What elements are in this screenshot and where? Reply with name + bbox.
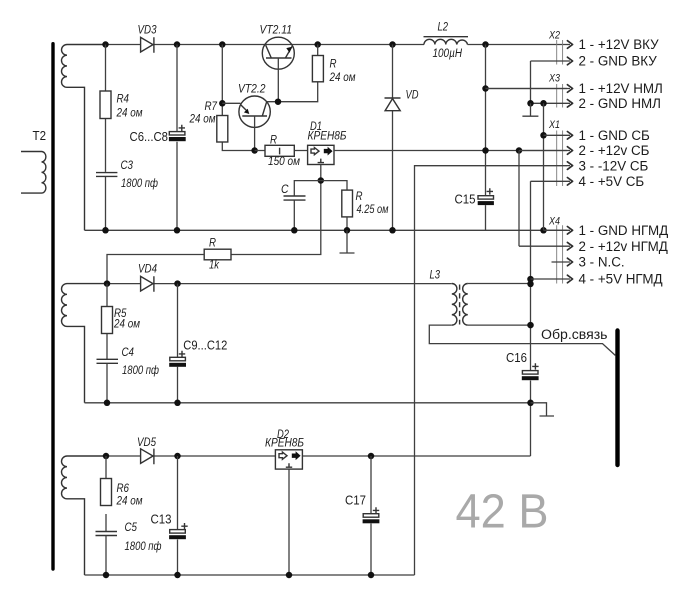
ground symbol below rail <box>340 230 355 253</box>
node junction C6...C8/gnd rail <box>174 227 181 234</box>
diode VD5 <box>137 437 157 464</box>
node junction VD/top rail <box>389 41 396 48</box>
svg-text:VD4: VD4 <box>138 264 157 276</box>
connector pin X1.1 (GND СБ) <box>544 134 571 136</box>
ground symbol at X3 <box>522 103 538 116</box>
svg-text:2 - GND НМЛ: 2 - GND НМЛ <box>579 96 661 111</box>
svg-text:C16: C16 <box>506 351 527 365</box>
svg-text:3 - N.C.: 3 - N.C. <box>579 255 625 270</box>
svg-text:R: R <box>356 191 363 203</box>
connector X1 bracket <box>557 131 563 187</box>
svg-text:C5: C5 <box>125 522 138 534</box>
connector pin X1.4 (+5V СБ) <box>531 180 571 182</box>
node junction R24/top rail <box>314 41 321 48</box>
wire X2 pin2 GND down-link <box>530 61 532 103</box>
svg-text:Обр.связь: Обр.связь <box>541 327 608 342</box>
wire GND vertical to X1/X4 <box>543 103 545 230</box>
node junction L3 top/+5V <box>527 281 534 288</box>
connector pin X1.2 (+12v СБ) <box>519 150 570 152</box>
resistor R 150 ом <box>255 135 308 169</box>
connector pin X4.3 (N.C.) <box>552 261 571 263</box>
svg-text:КРЕН8Б: КРЕН8Б <box>308 131 347 143</box>
svg-text:КРЕН8Б: КРЕН8Б <box>265 438 304 450</box>
connector X3 bracket <box>557 84 563 108</box>
wire feedback winding to bar <box>429 325 615 355</box>
svg-text:X2: X2 <box>548 30 560 42</box>
transformer T2 core <box>51 44 54 569</box>
svg-text:L3: L3 <box>430 270 441 282</box>
node junction R4/top rail <box>102 41 109 48</box>
+5V vertical with C16 <box>530 181 532 456</box>
svg-text:R: R <box>209 238 216 250</box>
connector pin X2.1 (+12V ВКУ) <box>567 44 570 46</box>
svg-text:C6...C8: C6...C8 <box>130 130 169 144</box>
svg-text:X4: X4 <box>548 216 560 228</box>
svg-text:100µH: 100µH <box>433 48 463 60</box>
svg-text:1 - GND СБ: 1 - GND СБ <box>579 128 650 143</box>
wire L3 right top to +5V node <box>468 283 531 285</box>
svg-text:2 - GND ВКУ: 2 - GND ВКУ <box>579 54 658 69</box>
regulator D1 КРЕН8Б <box>308 121 347 165</box>
node junction R7/top rail <box>219 41 226 48</box>
svg-text:24 ом: 24 ом <box>116 496 143 508</box>
ground symbol at C16 <box>531 403 555 416</box>
winding W1 (top secondary) <box>61 45 105 231</box>
svg-text:C9...C12: C9...C12 <box>183 339 227 353</box>
inductor L2 <box>424 22 469 61</box>
svg-text:T2: T2 <box>33 129 47 143</box>
regulator D2 КРЕН8Б <box>265 429 304 469</box>
resistor R 1k <box>107 238 231 284</box>
connector X2 bracket <box>557 40 563 65</box>
svg-text:VD5: VD5 <box>137 437 157 449</box>
svg-text:R4: R4 <box>117 94 130 106</box>
resistor R4 <box>100 45 143 172</box>
node junction C16/mid gnd rail <box>527 400 534 407</box>
capacitor C17 <box>345 456 379 575</box>
wire L2 node down to C15 <box>485 45 487 231</box>
svg-text:VT2.2: VT2.2 <box>238 84 266 96</box>
node junction R4.25/gnd rail <box>344 227 351 234</box>
capacitor C <box>281 184 306 230</box>
svg-text:C4: C4 <box>122 347 135 359</box>
svg-text:24 ом: 24 ом <box>189 114 216 126</box>
capacitor C3 <box>96 160 158 230</box>
resistor R6 <box>101 456 143 531</box>
connector pin X1.3 (-12V СБ) <box>415 165 571 167</box>
node GND dots at X3 <box>527 100 534 107</box>
connector pin X4.1 (GND НГМД) <box>544 229 571 231</box>
svg-text:1k: 1k <box>209 260 220 272</box>
node junction C5/bottom rail <box>103 572 110 579</box>
transistor VT2.11 <box>260 25 295 102</box>
svg-text:C15: C15 <box>455 193 476 207</box>
wire branch to R 4.25 <box>321 181 347 191</box>
svg-text:24 ом: 24 ом <box>329 72 356 84</box>
wire VD4 rail <box>107 283 452 285</box>
wire +12V rail from D1 <box>334 150 567 152</box>
connector pin X4.4 (+5V НГМД) <box>531 278 571 280</box>
wire -12V rail <box>415 166 568 575</box>
svg-text:C3: C3 <box>121 160 134 172</box>
capacitor C16 <box>506 351 539 380</box>
svg-text:1800 пф: 1800 пф <box>125 541 162 553</box>
svg-text:1 - +12V ВКУ: 1 - +12V ВКУ <box>579 37 660 52</box>
connector X4 bracket <box>557 225 563 283</box>
connector pin X3.1 (+12V НМЛ) <box>486 88 571 90</box>
svg-text:2 - +12v СБ: 2 - +12v СБ <box>579 143 650 158</box>
svg-text:VD3: VD3 <box>138 25 158 37</box>
svg-text:1 - +12V НМЛ: 1 - +12V НМЛ <box>579 81 663 96</box>
feedback bar <box>615 331 619 466</box>
node junction C6...C8/top rail <box>174 41 181 48</box>
svg-text:4 - +5V СБ: 4 - +5V СБ <box>579 174 645 189</box>
node junction L2 out/top rail <box>482 41 489 48</box>
svg-text:VT2.11: VT2.11 <box>260 25 293 37</box>
wire L3 right bottom <box>468 324 531 326</box>
resistor R 4.25 ом <box>342 190 389 230</box>
diode VD3 <box>138 25 158 53</box>
svg-text:VD: VD <box>406 90 419 102</box>
node junction GND vertical/rail <box>540 227 547 234</box>
connector pin X3.2 (GND НМЛ) <box>531 102 571 104</box>
node junction C13/bottom rail <box>174 572 181 579</box>
svg-text:R6: R6 <box>117 483 130 495</box>
transformer T2 primary winding <box>21 152 46 194</box>
connector pin X4.2 (+12v НГМД) <box>519 245 570 247</box>
node junction VD/gnd rail <box>389 227 396 234</box>
svg-text:4 - +5V НГМД: 4 - +5V НГМД <box>579 272 663 287</box>
winding W2 (middle secondary) <box>61 284 107 403</box>
svg-text:X3: X3 <box>548 73 560 85</box>
svg-text:X1: X1 <box>548 119 560 131</box>
capacitor C13 <box>151 456 188 575</box>
svg-text:24 ом: 24 ом <box>113 319 140 331</box>
svg-text:42 В: 42 В <box>456 485 549 539</box>
transformer L3 <box>430 270 468 326</box>
resistor R5 <box>102 284 141 359</box>
node X1 pin1 junction <box>540 132 547 139</box>
wire bottom rail <box>85 574 415 576</box>
resistor R 24 ом (top) <box>312 45 355 85</box>
wire D2 ground lead <box>288 469 290 575</box>
node junction L3 bottom/+5V <box>527 322 534 329</box>
wire D1 ground branch to R 1k <box>231 165 321 255</box>
svg-text:2 - +12v НГМД: 2 - +12v НГМД <box>579 239 668 254</box>
wire middle GND rail <box>85 402 531 404</box>
svg-text:4.25 ом: 4.25 ом <box>357 204 389 216</box>
diode VD (vertical) <box>385 45 419 231</box>
svg-text:L2: L2 <box>438 22 449 34</box>
node junction X4 pin4/+5V <box>527 276 534 283</box>
svg-text:R: R <box>270 135 277 147</box>
capacitor C4 <box>97 347 160 403</box>
svg-text:1800 пф: 1800 пф <box>122 365 159 377</box>
svg-text:R7: R7 <box>205 101 218 113</box>
connector pin X2.2 (GND ВКУ) <box>531 60 571 62</box>
wire branch to C <box>294 181 321 196</box>
node junction C3/gnd rail <box>102 227 109 234</box>
transistor VT2.2 <box>222 82 317 154</box>
svg-text:C13: C13 <box>151 513 172 527</box>
diode VD4 <box>138 264 157 292</box>
winding W3 (bottom secondary) <box>61 456 106 575</box>
node junction C/gnd rail <box>291 227 298 234</box>
svg-text:1 - GND НГМД: 1 - GND НГМД <box>579 223 669 238</box>
svg-text:150 ом: 150 ом <box>268 156 300 168</box>
capacitor C9...C12 <box>169 284 227 403</box>
node junction C17/bottom rail <box>368 572 375 579</box>
svg-text:3 - -12V СБ: 3 - -12V СБ <box>579 158 649 173</box>
capacitor C6...C8 <box>130 45 186 231</box>
svg-text:C17: C17 <box>345 494 366 508</box>
capacitor C5 <box>96 522 162 575</box>
resistor R7 <box>189 45 255 151</box>
wire top rail <box>106 44 568 46</box>
node junction D2 gnd/bottom rail <box>286 572 293 579</box>
svg-text:1800 пф: 1800 пф <box>121 178 158 190</box>
wire VD5 rail <box>106 455 531 457</box>
wire X3 pin1 branch <box>486 88 568 90</box>
svg-text:R: R <box>330 59 337 71</box>
capacitor C15 <box>455 188 494 206</box>
wire X4 pin2 +12v link <box>518 151 520 247</box>
wire bottom rail of top section (GND) <box>85 229 568 231</box>
svg-text:C: C <box>281 184 289 196</box>
svg-text:24 ом: 24 ом <box>116 108 143 120</box>
